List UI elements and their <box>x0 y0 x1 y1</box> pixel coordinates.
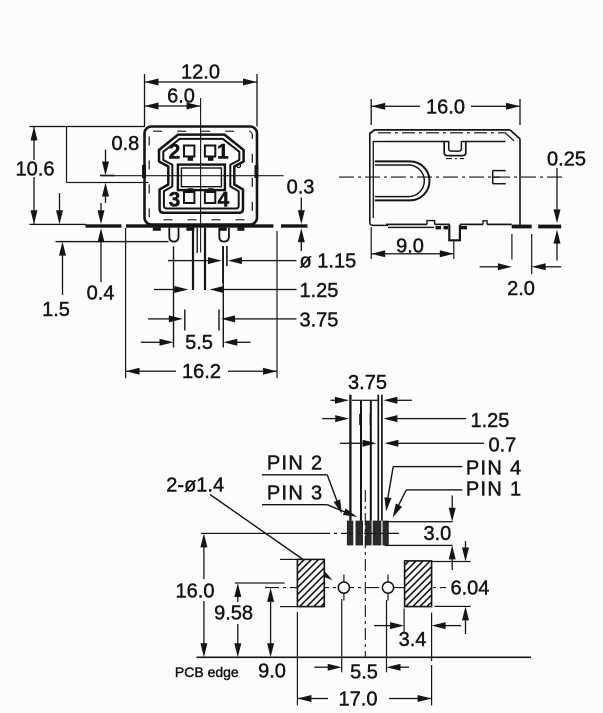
svg-text:9.0: 9.0 <box>258 661 286 683</box>
svg-text:17.0: 17.0 <box>339 689 378 711</box>
front view: right mounting leg (U shape) <box>219 228 229 242</box>
svg-text:4: 4 <box>217 189 229 212</box>
svg-text:16.2: 16.2 <box>182 361 221 383</box>
svg-text:16.0: 16.0 <box>426 97 465 119</box>
footprint: pad row centerline <box>201 533 318 534</box>
svg-text:6.0: 6.0 <box>167 86 195 108</box>
svg-text:12.0: 12.0 <box>181 62 220 84</box>
front view: dimension dia 1.15 (pin diameter) <box>168 260 208 261</box>
front view: dimension 0.4 arrows (flange thickness) <box>100 203 101 211</box>
side view: bottom-left foot <box>370 218 388 225</box>
footprint: PCB edge line <box>197 657 532 659</box>
front view: contact square pin 4 (bottom-right) <box>205 192 215 203</box>
svg-text:3.0: 3.0 <box>423 523 451 545</box>
svg-text:0.25: 0.25 <box>547 149 586 171</box>
svg-text:9.0: 9.0 <box>396 236 424 258</box>
front view: vertical centerline <box>200 98 201 253</box>
svg-text:6.04: 6.04 <box>451 578 490 600</box>
side view: shell spring contact mark <box>493 170 506 172</box>
svg-text:3.75: 3.75 <box>348 372 387 394</box>
svg-text:PIN 2: PIN 2 <box>267 453 324 475</box>
svg-text:3: 3 <box>169 189 181 212</box>
side view: flange lower line <box>388 227 434 228</box>
side view: dimension 2.0 (pad length) <box>511 234 512 260</box>
footprint: hole centerline dash-dot <box>265 587 446 589</box>
svg-text:3.4: 3.4 <box>399 629 427 651</box>
side view: inner top line <box>373 141 386 143</box>
svg-text:0.3: 0.3 <box>287 177 315 199</box>
front view: dimension 10.6 (body height) <box>30 126 146 127</box>
side view: PCB locator peg <box>449 225 460 240</box>
footprint: pin 1 lead line (double) <box>377 395 379 521</box>
side view: body left edge (double line) <box>369 133 371 222</box>
front view: leg bottom reference line <box>56 241 169 242</box>
front view: dimension 0.8 reference lines <box>66 127 67 183</box>
svg-text:1.5: 1.5 <box>42 299 70 321</box>
svg-text:1.25: 1.25 <box>300 280 339 302</box>
front view: center tongue inner rectangle <box>181 168 221 187</box>
footprint: dimension 9.0 (hole center to PCB edge) <box>270 602 271 644</box>
svg-text:PCB edge: PCB edge <box>175 664 239 680</box>
svg-text:2-ø1.4: 2-ø1.4 <box>166 475 224 497</box>
side view: bottom edge <box>386 224 427 226</box>
front view: center tongue outer rectangle <box>178 165 225 191</box>
side view: dimension 16.0 (body length) <box>371 99 372 125</box>
svg-text:ø 1.15: ø 1.15 <box>300 251 357 273</box>
svg-text:PIN 1: PIN 1 <box>466 479 523 501</box>
front view: mounting flange plate (center segment) <box>126 224 274 227</box>
side view: solder foot pads <box>512 225 532 229</box>
front view: dimension 1.5 arrows <box>59 193 60 211</box>
side view: right edge <box>519 139 521 224</box>
front view: horizontal centerline <box>102 175 284 176</box>
front view: dimension 6.0 (half width to centerline) <box>145 105 201 106</box>
front view: left mounting leg (U shape) <box>169 228 178 242</box>
footprint: dimension 17.0 (overall pad span) <box>297 612 298 705</box>
svg-text:2: 2 <box>169 141 181 164</box>
footprint: left mounting pad (hatched) <box>297 559 324 606</box>
front view: contact square pin 3 (bottom-left) <box>184 192 194 203</box>
svg-text:9.58: 9.58 <box>214 603 253 625</box>
svg-text:10.6: 10.6 <box>16 159 55 181</box>
front view: mounting flange plate (right segment) <box>281 224 308 227</box>
side view: top edge dash-dot line <box>378 132 505 134</box>
svg-text:2.0: 2.0 <box>507 278 535 300</box>
footprint: dimension 3.0 (pad row depth) <box>452 496 453 508</box>
footprint: pad edge extension lines <box>280 559 297 560</box>
footprint: right mounting hole <box>387 575 388 601</box>
side view: bottom edge weld dashes <box>436 226 442 229</box>
front view: connector body outer shell (rounded square) <box>145 127 258 225</box>
svg-text:0.4: 0.4 <box>87 283 115 305</box>
footprint: left mounting hole <box>343 575 344 601</box>
front view: centerline tick mark left edge <box>142 165 146 178</box>
footprint: pin 3 lead line <box>360 401 362 521</box>
svg-text:1: 1 <box>217 141 229 164</box>
front view: mounting flange plate (left segment) <box>86 224 122 227</box>
front view: dimension 0.8 arrows and text <box>105 150 106 163</box>
footprint: dimension 0.7 (pin width) <box>340 443 363 444</box>
footprint: pad row bottom line <box>385 545 453 546</box>
side view: mating face bullet profile outer <box>375 161 430 200</box>
footprint: dimension 1.25 (pin pitch) <box>322 418 335 419</box>
front view: dimension 1.25 (pin pitch) <box>154 289 176 290</box>
footprint: dimension 3.4 (pad width) <box>404 609 405 632</box>
footprint: dimension 6.04 (pad height) <box>465 541 466 548</box>
svg-text:5.5: 5.5 <box>350 662 378 684</box>
side view: bottom edge bump <box>427 221 435 225</box>
side view: dimension 9.0 (body to peg) <box>371 227 372 259</box>
front view: dimension 16.2 (flange width) <box>125 228 126 378</box>
side view: bottom-right jog <box>483 221 487 225</box>
footprint: pin 2 lead line <box>349 395 351 521</box>
footprint: 9.58 reference line <box>235 582 285 583</box>
svg-text:0.8: 0.8 <box>112 133 140 155</box>
svg-text:PIN 4: PIN 4 <box>466 458 523 480</box>
front view: USB-B shell opening outer outline <box>159 135 244 213</box>
front view: centerline tick mark right edge <box>255 165 259 178</box>
footprint: vertical centerline dash-dot <box>364 490 366 658</box>
side view: horizontal centerline dash-dot <box>339 176 566 178</box>
front view: contact square pin 2 (top-left) <box>184 146 194 157</box>
footprint: dimension 5.5 (hole spacing) <box>341 599 342 672</box>
footprint: connector front edge line <box>385 521 453 522</box>
front view: contact square pin 1 (top-right) <box>205 146 215 157</box>
footprint: dimension 16.0 (front edge to PCB edge) <box>203 547 204 579</box>
svg-text:16.0: 16.0 <box>176 581 215 603</box>
front view: contact pins below body <box>192 228 194 290</box>
side view: body top edge with chamfered corner <box>370 130 510 134</box>
svg-text:5.5: 5.5 <box>185 332 213 354</box>
footprint: dimension 9.58 <box>237 597 238 602</box>
side view: top-right chamfer <box>510 130 520 139</box>
svg-text:1.25: 1.25 <box>471 410 510 432</box>
side view: top latch detail (double U) <box>444 141 466 156</box>
front view: flange feet tabs <box>153 228 161 231</box>
footprint: right mounting pad (hatched) <box>405 561 432 607</box>
svg-text:0.7: 0.7 <box>489 435 517 457</box>
front view: USB-B shell opening inner outline <box>163 139 239 209</box>
footprint: solder pad row <box>347 521 353 546</box>
front view: dimension 12.0 (body width) <box>144 74 145 127</box>
side view: mating face bullet profile inner <box>375 165 425 197</box>
svg-text:PIN 3: PIN 3 <box>267 483 324 505</box>
front view: dimension 5.5 (leg spacing) <box>173 247 174 348</box>
front view: small circle detail near top-right of opening <box>237 164 241 168</box>
svg-text:3.75: 3.75 <box>300 310 339 332</box>
front view: dimension 3.75 (pin row span) <box>148 318 170 319</box>
footprint: pin 4 lead line <box>370 401 372 521</box>
